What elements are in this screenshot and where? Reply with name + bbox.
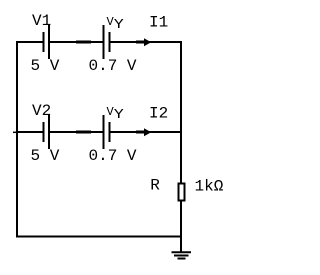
svg-text:Y: Y — [114, 17, 125, 33]
wire middle segment center — [50, 131, 103, 133]
current arrow I1 — [136, 38, 151, 46]
ground — [172, 252, 192, 258]
wire bottom horizontal — [16, 236, 182, 238]
current arrow I2 — [136, 128, 151, 136]
svg-text:I1: I1 — [149, 13, 168, 31]
svg-text:R: R — [150, 176, 160, 194]
battery VY (top) long plate — [103, 25, 105, 59]
wire right vertical lower — [180, 201, 182, 252]
battery VY (top) short plate — [109, 32, 111, 52]
wire top segment middle — [50, 41, 103, 43]
svg-text:Y: Y — [114, 107, 125, 123]
svg-text:V1: V1 — [32, 12, 51, 30]
resistor R1 body — [179, 184, 185, 201]
svg-text:V2: V2 — [32, 102, 51, 120]
wire overlap tick — [76, 41, 91, 44]
svg-text:I2: I2 — [149, 104, 168, 122]
label VY (middle) — [107, 105, 125, 123]
svg-text:5 V: 5 V — [31, 147, 60, 165]
svg-text:0.7 V: 0.7 V — [89, 147, 137, 165]
battery V2 long plate — [48, 115, 50, 149]
wire left vertical — [16, 41, 18, 237]
battery V2 short plate — [43, 122, 45, 142]
svg-text:0.7 V: 0.7 V — [89, 57, 137, 75]
wire middle segment right — [111, 131, 183, 133]
wire middle segment left — [16, 131, 43, 133]
node nub at left junction — [13, 131, 16, 133]
wire right vertical upper — [180, 41, 182, 183]
battery VY (middle) long plate — [103, 115, 105, 149]
battery VY (middle) short plate — [109, 122, 111, 142]
svg-text:1kΩ: 1kΩ — [195, 178, 224, 196]
battery V1 long plate — [48, 25, 50, 59]
battery V1 short plate — [43, 32, 45, 52]
label VY (top) — [107, 15, 125, 33]
svg-text:5 V: 5 V — [31, 57, 60, 75]
wire top segment left — [16, 41, 43, 43]
wire overlap tick — [76, 131, 91, 134]
wire top segment right — [111, 41, 183, 43]
